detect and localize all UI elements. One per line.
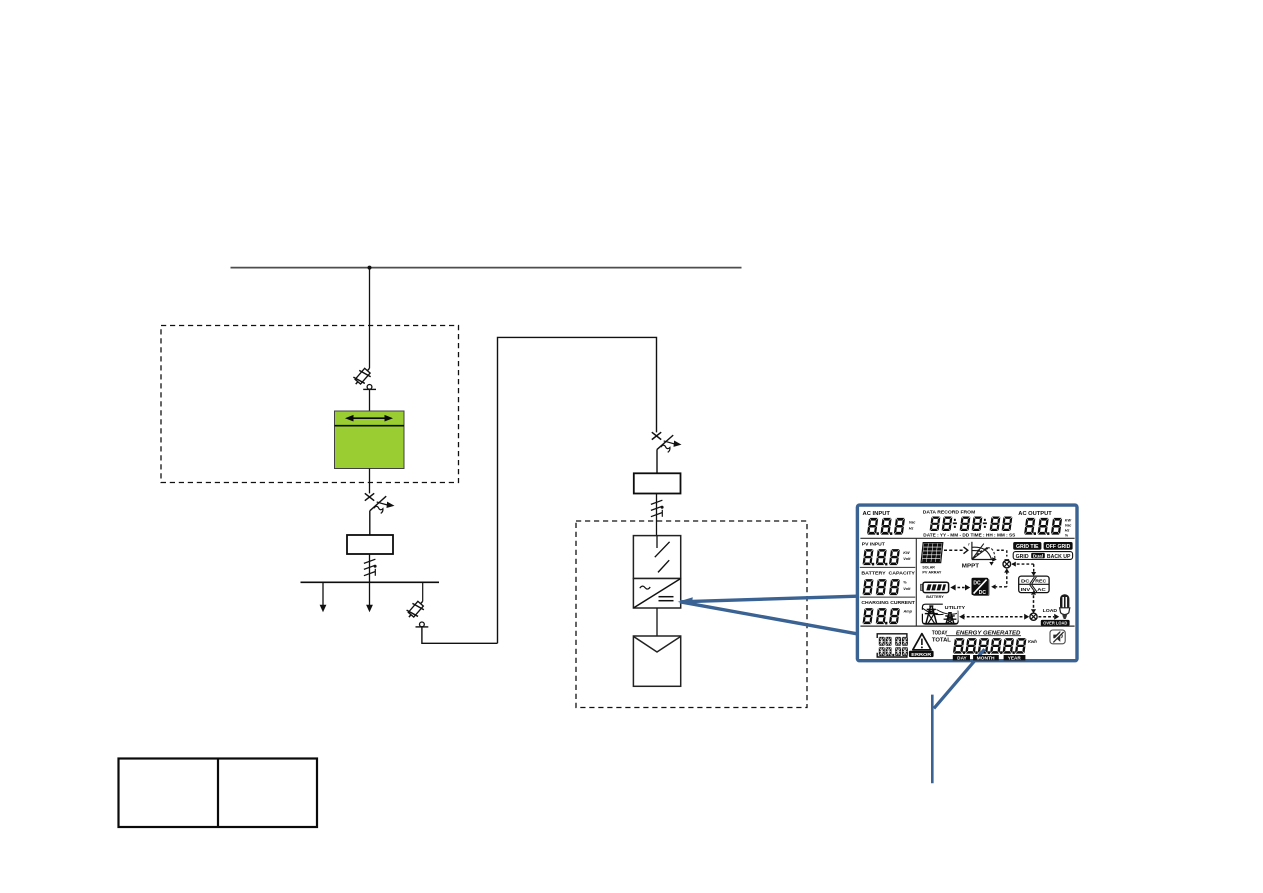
svg-text:Volt: Volt xyxy=(903,557,911,561)
svg-text:PV INPUT: PV INPUT xyxy=(862,541,885,546)
svg-text:DATE : YY - MM - DD TIME : HH: DATE : YY - MM - DD TIME : HH : MM : SS xyxy=(923,532,1015,537)
svg-text:DC: DC xyxy=(979,590,987,596)
svg-text:MONTH: MONTH xyxy=(977,656,995,661)
svg-text:DC: DC xyxy=(1021,579,1030,584)
svg-text:KW: KW xyxy=(1065,519,1072,523)
svg-text:PV ARRAY: PV ARRAY xyxy=(922,570,941,575)
svg-text:DATA RECORD FROM: DATA RECORD FROM xyxy=(923,510,976,516)
svg-text:CHARGING CURRENT: CHARGING CURRENT xyxy=(861,600,915,605)
svg-text:%: % xyxy=(1065,534,1069,538)
svg-text:Vac: Vac xyxy=(909,521,917,525)
svg-text:Hz: Hz xyxy=(909,527,914,531)
svg-text:DAY: DAY xyxy=(957,656,967,661)
svg-text:Hz: Hz xyxy=(1065,529,1070,533)
svg-text:TOTAL: TOTAL xyxy=(932,637,951,643)
svg-text:GRID: GRID xyxy=(1016,554,1029,560)
svg-text:TODAY: TODAY xyxy=(932,630,948,636)
svg-text:BATTERY CAPACITY: BATTERY CAPACITY xyxy=(861,570,915,575)
svg-text:Dual: Dual xyxy=(1033,554,1043,559)
svg-text:BATTERY: BATTERY xyxy=(926,594,944,599)
svg-text:AC: AC xyxy=(1037,587,1046,592)
svg-text:Kwh: Kwh xyxy=(1028,639,1037,644)
svg-text:YEAR: YEAR xyxy=(1008,656,1022,661)
svg-text:ENERGY GENERATED: ENERGY GENERATED xyxy=(956,630,1021,636)
svg-text:INV: INV xyxy=(1021,587,1030,592)
svg-text:Volt: Volt xyxy=(903,587,911,591)
svg-text:REC: REC xyxy=(1035,579,1047,584)
svg-text:Vac: Vac xyxy=(1065,524,1073,528)
svg-text:AC OUTPUT: AC OUTPUT xyxy=(1018,511,1052,517)
svg-text:OFF GRID: OFF GRID xyxy=(1046,544,1071,550)
svg-text:AC INPUT: AC INPUT xyxy=(863,511,891,517)
svg-text:ERROR: ERROR xyxy=(911,652,932,658)
svg-text:KW: KW xyxy=(903,551,910,555)
svg-text:Amp: Amp xyxy=(903,609,913,613)
svg-text:BACK UP: BACK UP xyxy=(1047,554,1071,560)
svg-text:MPPT: MPPT xyxy=(962,563,980,569)
svg-text:%: % xyxy=(903,581,907,585)
svg-text:LOAD: LOAD xyxy=(1043,608,1058,613)
svg-text:UTILITY: UTILITY xyxy=(945,605,966,610)
svg-text:GRID TIE: GRID TIE xyxy=(1016,544,1039,550)
svg-text:DC: DC xyxy=(973,581,981,587)
svg-text:OVER LOAD: OVER LOAD xyxy=(1043,621,1068,626)
